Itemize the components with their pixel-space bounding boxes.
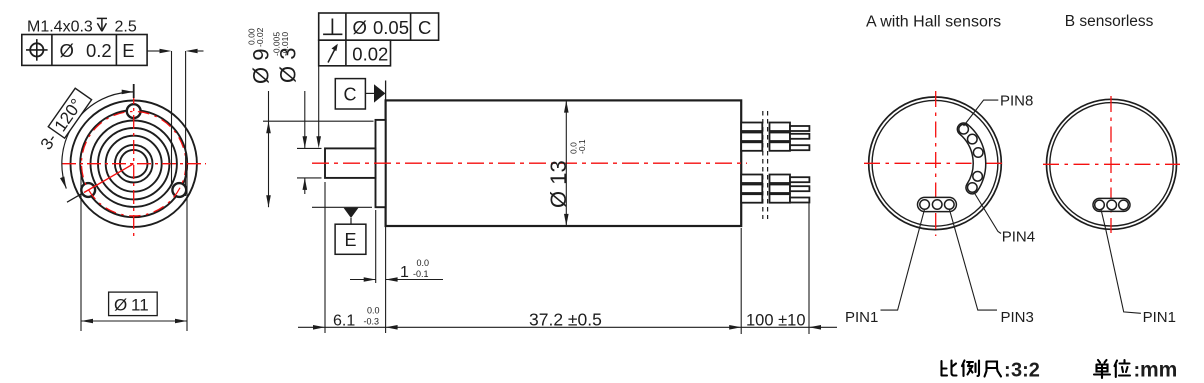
- leader PIN8: [964, 100, 999, 126]
- leader from frame to hole: [147, 50, 160, 52]
- svg-text:PIN3: PIN3: [1001, 309, 1034, 326]
- Ø9 rotated label: [247, 27, 274, 84]
- dimension 6.1: [331, 306, 380, 330]
- dimension 1: [375, 210, 377, 283]
- shaft bottom extension: [297, 177, 322, 179]
- perpendicularity symbol: [331, 19, 333, 35]
- svg-text:0.2: 0.2: [86, 40, 112, 61]
- circle A outer: [869, 97, 1002, 230]
- svg-text:PIN1: PIN1: [1143, 309, 1176, 326]
- position symbol: [30, 43, 43, 56]
- svg-text:-0.1: -0.1: [577, 139, 587, 154]
- Ø11 label box: [109, 292, 158, 316]
- wire row 3: [741, 142, 762, 151]
- leader PIN1 (A): [881, 209, 925, 310]
- svg-text:0.02: 0.02: [352, 44, 388, 65]
- side view center line: [312, 162, 747, 164]
- unit label CJK 单位: [1094, 360, 1130, 378]
- datum E triangle: [344, 208, 359, 218]
- svg-text:PIN8: PIN8: [1000, 93, 1033, 110]
- mounting hole top: [127, 104, 141, 118]
- svg-text:3:2: 3:2: [1011, 360, 1040, 382]
- circle B center lines: [1043, 163, 1180, 165]
- front view center line horizontal: [62, 163, 206, 165]
- bottom dimension extension lines: [324, 182, 326, 333]
- mounting hole lower-right: [172, 183, 186, 197]
- 单: [1094, 360, 1110, 378]
- svg-text::: :: [1004, 360, 1011, 382]
- shaft: [325, 148, 376, 178]
- wire row 4: [741, 175, 762, 184]
- svg-text:M1.4x0.3: M1.4x0.3: [27, 19, 93, 36]
- svg-text:-0.010: -0.010: [280, 32, 290, 56]
- hole extension line right: [185, 51, 187, 196]
- svg-text:C: C: [344, 85, 357, 105]
- 位: [1115, 360, 1131, 377]
- svg-text:6.1: 6.1: [333, 313, 355, 330]
- svg-text:C: C: [418, 17, 431, 38]
- circle B inner ring: [1050, 103, 1173, 226]
- hole extension line left: [171, 51, 173, 184]
- tick at lower-left hole: [67, 194, 82, 203]
- datum C triangle: [374, 84, 385, 102]
- front view outer body circle Ø13: [71, 101, 197, 227]
- front view circle r43: [91, 121, 177, 207]
- Ø3 dimension line lower: [304, 178, 306, 194]
- svg-text:-0.3: -0.3: [364, 317, 380, 327]
- datum E box: [335, 224, 366, 254]
- svg-text:0.0: 0.0: [367, 306, 380, 316]
- wire row 1: [741, 123, 762, 132]
- svg-text:2.5: 2.5: [115, 19, 137, 36]
- svg-text:1: 1: [400, 264, 409, 281]
- position tolerance frame: [22, 35, 147, 66]
- Ø3 rotated label: [272, 32, 301, 83]
- hall pads: [959, 124, 983, 192]
- scale label CJK 比例尺: [942, 361, 1002, 377]
- wire row 6: [741, 194, 762, 203]
- dimension 37.2: [528, 309, 606, 330]
- red radial line to lower-left hole: [84, 164, 134, 193]
- svg-text:E: E: [345, 230, 357, 250]
- 例: [962, 361, 979, 377]
- flange boss: [376, 120, 386, 207]
- perpendicularity feature control frame: [319, 13, 439, 40]
- bottom dimension line: [298, 326, 837, 328]
- depth symbol: [97, 17, 107, 19]
- leader PIN1 (B): [1101, 210, 1141, 314]
- circle B outer: [1047, 99, 1177, 229]
- tick above top hole: [133, 84, 135, 98]
- svg-text:A with Hall sensors: A with Hall sensors: [866, 14, 1001, 31]
- 比: [942, 361, 957, 376]
- svg-text:mm: mm: [1140, 359, 1177, 382]
- wire break dashed lines: [762, 111, 764, 219]
- svg-text:B sensorless: B sensorless: [1065, 13, 1154, 30]
- svg-text:Ø: Ø: [114, 296, 127, 315]
- flange top extension line: [263, 120, 374, 122]
- thread callout M1.4x0.3 depth 2.5: [27, 18, 137, 35]
- Ø3 dimension line upper: [304, 91, 306, 148]
- runout symbol: [328, 48, 336, 63]
- front view circle r18.8: [115, 145, 153, 183]
- datum E line: [312, 206, 372, 208]
- front view flange circle Ø11: [80, 110, 187, 217]
- dimension 100: [745, 310, 806, 330]
- svg-text:0.0: 0.0: [417, 258, 430, 268]
- bottom pads B: [1095, 200, 1129, 210]
- bottom pad slot B: [1100, 198, 1124, 213]
- wire row 2: [741, 133, 762, 142]
- svg-text:11: 11: [131, 296, 149, 315]
- svg-text:0.05: 0.05: [373, 17, 409, 38]
- svg-text:37.2 ±0.5: 37.2 ±0.5: [529, 310, 602, 330]
- datum C box: [335, 79, 365, 109]
- body left edge extension above: [385, 81, 387, 101]
- circle A inner ring: [872, 100, 998, 226]
- svg-text:-0.1: -0.1: [413, 269, 429, 279]
- front view shaft circle: [120, 150, 148, 178]
- hall pad arc band: [964, 129, 980, 187]
- bottom pads A: [920, 200, 954, 210]
- leader PIN4: [974, 192, 1002, 234]
- svg-text:PIN4: PIN4: [1002, 229, 1035, 246]
- motor body: [386, 100, 742, 226]
- svg-text:Ø 9: Ø 9: [249, 49, 274, 84]
- 120 degree arc dimension: [62, 92, 134, 189]
- bolt circle red dashed: [82, 112, 186, 216]
- front view circle r35.7: [98, 128, 169, 199]
- svg-text:Ø: Ø: [353, 17, 367, 38]
- Ø11 dimension line: [81, 320, 187, 322]
- svg-text:Ø: Ø: [60, 40, 74, 61]
- svg-text:100 ±10: 100 ±10: [746, 312, 806, 330]
- 尺: [985, 362, 1002, 377]
- circle A center lines: [864, 162, 1007, 164]
- mounting hole lower-left: [81, 183, 95, 197]
- wire row 5: [741, 185, 762, 194]
- bottom pad slot A: [925, 197, 950, 213]
- label 3-120 rotated: [37, 88, 92, 154]
- front view center line vertical: [133, 90, 135, 237]
- wires upper bundle: [741, 123, 809, 203]
- svg-text:-0.02: -0.02: [255, 27, 265, 47]
- svg-text:Ø 13: Ø 13: [546, 160, 571, 208]
- front view circle r28: [106, 136, 162, 192]
- runout feature control frame: [319, 40, 391, 66]
- leader PIN3: [949, 209, 997, 310]
- shaft top extension: [297, 147, 322, 149]
- Ø13 dimension: [565, 101, 567, 226]
- svg-text:E: E: [122, 40, 134, 61]
- svg-text:PIN1: PIN1: [845, 309, 878, 326]
- leader from runout frame to shaft: [318, 66, 320, 137]
- Ø9 dimension line: [268, 91, 270, 207]
- Ø11 dimension extension lines: [80, 170, 82, 331]
